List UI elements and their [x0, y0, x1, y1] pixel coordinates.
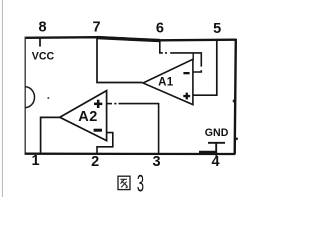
op-amp A2 triangle: [60, 91, 107, 141]
wire A2 inverting input to pin 2: [97, 133, 113, 154]
IC package top edge: [25, 37, 236, 40]
wire pin7 to A1 output: [97, 38, 143, 83]
GND symbol bar: [208, 142, 225, 144]
A1 non-inverting input plus marker: [183, 93, 190, 100]
svg-text:A1: A1: [158, 77, 174, 89]
right edge tick nub upper: [233, 100, 236, 103]
wire A2 non-inverting input to pin 3: [119, 104, 159, 154]
svg-text:8: 8: [39, 20, 47, 36]
scan edge artifact line: [1, 0, 3, 197]
right edge tick nub lower: [235, 138, 238, 140]
figure caption number 3: [137, 172, 144, 198]
IC package bottom edge: [25, 153, 236, 156]
wire nub at A1 top corner: [192, 54, 194, 61]
svg-text:A2: A2: [78, 109, 98, 125]
svg-text:VCC: VCC: [32, 50, 55, 62]
svg-text:5: 5: [213, 21, 221, 37]
svg-text:3: 3: [153, 154, 161, 170]
A1 inverting input minus marker: [183, 72, 189, 74]
pin 4 stub below edge: [215, 152, 217, 158]
speckle dot: [47, 97, 49, 99]
svg-text:GND: GND: [205, 127, 229, 139]
figure caption glyph 图: [118, 176, 130, 189]
IC package bottom edge thick segment: [199, 151, 217, 154]
wire pin5 to A1 non-inverting input: [194, 41, 217, 96]
IC package left edge: [24, 37, 26, 155]
GND symbol stem: [215, 143, 217, 154]
IC index notch: [25, 87, 34, 108]
svg-text:1: 1: [32, 153, 40, 169]
A2 non-inverting input plus marker: [94, 100, 102, 108]
svg-text:7: 7: [93, 20, 101, 36]
op-amp A1 triangle: [143, 59, 193, 104]
pin 8 stub: [39, 39, 41, 47]
wire A2 non-inverting input to pin 3 dashed start: [107, 103, 117, 105]
IC package top edge thick segment: [97, 38, 160, 41]
wire pin6 to A1 inverting input: [160, 41, 202, 72]
svg-text:6: 6: [156, 21, 164, 37]
A2 inverting input minus marker: [94, 129, 102, 132]
scan gaps in pin6 wire: [163, 52, 203, 71]
figure caption glyph 图 dot: [126, 187, 128, 189]
IC package right edge: [235, 39, 236, 154]
wire A2 output to pin 1: [41, 117, 60, 154]
svg-text:3: 3: [137, 172, 144, 197]
svg-text:2: 2: [91, 154, 99, 170]
